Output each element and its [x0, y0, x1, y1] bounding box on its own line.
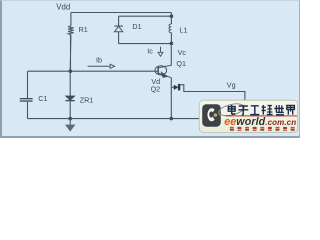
svg-text:Ic: Ic: [147, 46, 153, 55]
watermark title char 程: [262, 105, 273, 115]
wire bottom rail: [28, 118, 246, 120]
watermark title char 世: [274, 105, 284, 115]
arrow Ib: [88, 64, 115, 68]
wire top rail from Vdd corner to right column: [71, 12, 171, 14]
wire L1 bottom to node: [170, 33, 172, 44]
svg-text:Q1: Q1: [176, 59, 186, 68]
wire Q1 emitter down to bottom rail: [170, 78, 172, 119]
watermark slogan blobs: [230, 127, 295, 131]
watermark title char 界: [287, 105, 295, 114]
svg-text:C1: C1: [38, 94, 47, 103]
capacitor C1: [20, 71, 48, 118]
label Ic: [147, 46, 153, 55]
junction bottom rail / Q1 column: [170, 117, 174, 121]
wire R1 column to ZR1: [69, 71, 71, 96]
watermark title char 工: [250, 106, 259, 115]
arrow Ic: [158, 47, 163, 57]
wire Vdd stem upper segment: [70, 13, 72, 26]
watermark logo square: [202, 104, 221, 127]
wire R1 to base junction: [69, 35, 72, 71]
watermark url text: [224, 116, 296, 128]
node Vc: [178, 48, 187, 57]
ground: [66, 119, 75, 132]
transistor Q1: [155, 59, 186, 78]
inductor L1: [169, 24, 188, 35]
svg-text:D1: D1: [132, 22, 141, 31]
wire Q2 output to Vg corner: [180, 85, 245, 101]
watermark logo dot: [214, 113, 217, 116]
wire D1 sub-rail: [119, 15, 172, 17]
watermark title char 子: [238, 106, 248, 115]
svg-text:Vdd: Vdd: [56, 3, 70, 12]
watermark title char 电: [228, 105, 235, 114]
svg-text:R1: R1: [79, 25, 88, 34]
resistor R1: [68, 25, 88, 35]
svg-text:Ib: Ib: [96, 55, 102, 64]
wire D1 bottom rail: [119, 43, 172, 45]
label Ib: [96, 55, 102, 64]
watermark eeworld box: [199, 100, 297, 132]
watermark slogan stroke slits: [230, 128, 295, 129]
node Vdd: [56, 3, 70, 12]
svg-text:Vg: Vg: [227, 80, 236, 89]
zener diode ZR1: [65, 96, 93, 119]
junction D1 bottom / column: [170, 42, 174, 46]
diode D1: [114, 16, 141, 43]
node Vd: [151, 77, 160, 86]
wire base rail C1 to Q1 base: [28, 70, 159, 72]
wire right column top: [170, 13, 172, 25]
node Vg: [227, 80, 236, 89]
svg-text:eeworld.com.cn: eeworld.com.cn: [224, 116, 296, 128]
svg-text:Q2: Q2: [151, 85, 161, 94]
junction base/R1: [69, 69, 73, 73]
svg-text:Vc: Vc: [178, 48, 187, 57]
watermark logo C: [207, 108, 214, 121]
junction bottom rail / ZR1: [68, 117, 72, 121]
svg-text:L1: L1: [180, 26, 188, 35]
svg-text:ZR1: ZR1: [80, 96, 94, 105]
wire column node to Q1 collector: [170, 43, 172, 65]
transistor Q2: [151, 84, 181, 94]
junction D1 top / column: [170, 14, 174, 18]
watermark orbit ellipse: [218, 102, 246, 118]
watermark red underline: [225, 115, 297, 116]
